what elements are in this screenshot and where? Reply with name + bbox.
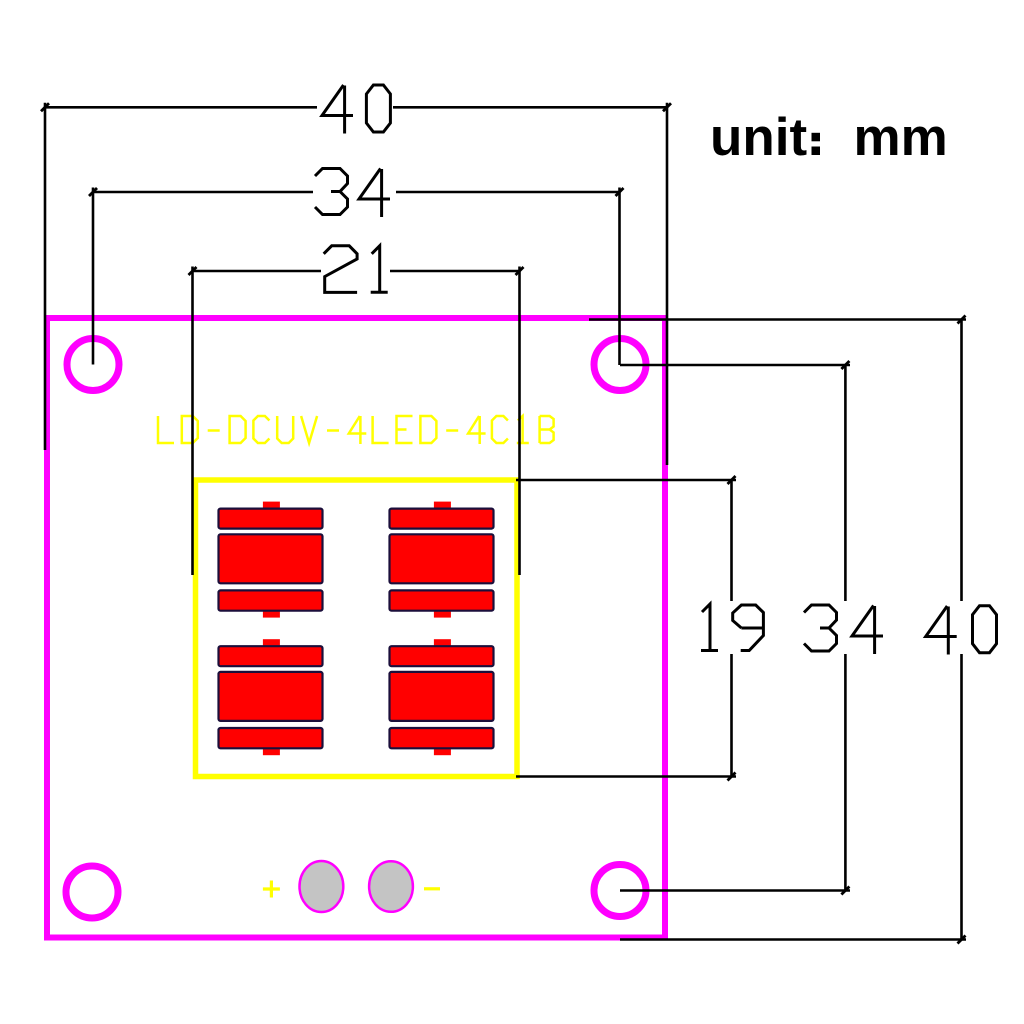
dimension digits xyxy=(315,85,997,655)
dim 19 top extension xyxy=(516,479,736,482)
text 34 right xyxy=(804,605,837,651)
dim 21 top horizontal line xyxy=(193,270,520,273)
mounting hole top-right xyxy=(594,339,646,391)
dim 34 right bottom extension xyxy=(620,889,850,892)
solder pad negative xyxy=(369,861,413,912)
text 19 right xyxy=(701,604,718,651)
mounting hole bottom-left xyxy=(66,866,118,918)
mounting hole bottom-right xyxy=(594,865,646,917)
dim 34 right vertical line xyxy=(844,365,847,891)
dim 21 right extension xyxy=(518,267,521,576)
minus symbol xyxy=(424,887,440,890)
dimension lines xyxy=(45,103,966,940)
PCB board outline xyxy=(47,318,665,938)
unit label xyxy=(710,108,948,167)
LED chip top-left xyxy=(219,502,323,618)
dim 19 bottom extension xyxy=(516,775,736,778)
dim 34 top left extension xyxy=(92,188,95,365)
LED emitting area yellow frame xyxy=(196,480,518,777)
dim 19 right vertical line xyxy=(730,480,733,777)
dim 34 right top extension xyxy=(620,364,850,367)
dim 21 left extension xyxy=(191,267,194,576)
dim 40 top horizontal line xyxy=(46,106,667,109)
text 34 top xyxy=(315,169,348,215)
dim 40 top left extension xyxy=(44,103,47,450)
text 21 top xyxy=(324,246,357,293)
svg-text:mm: mm xyxy=(854,108,948,167)
dim 34 top right extension xyxy=(618,188,621,366)
dim 40 right vertical line xyxy=(960,320,963,940)
solder pad positive xyxy=(300,861,344,912)
plus symbol xyxy=(263,881,280,898)
unit label colon dots xyxy=(812,133,821,142)
mounting hole top-left xyxy=(67,339,119,391)
svg-text:unit: unit xyxy=(710,108,807,167)
LED chip bottom-right xyxy=(390,639,494,755)
dim 40 right bottom extension xyxy=(620,938,966,941)
LED chip top-right xyxy=(390,502,494,618)
dim 40 right top extension xyxy=(589,318,966,321)
dim 34 top horizontal line xyxy=(93,191,620,194)
silkscreen label LD-DCUV-4LED-4C1B xyxy=(158,416,554,444)
text 40 right xyxy=(926,606,957,655)
text 40 top xyxy=(322,85,353,134)
dimension tick marks xyxy=(41,103,966,943)
LED chip bottom-left xyxy=(219,639,323,755)
dim 40 top right extension xyxy=(666,103,669,465)
